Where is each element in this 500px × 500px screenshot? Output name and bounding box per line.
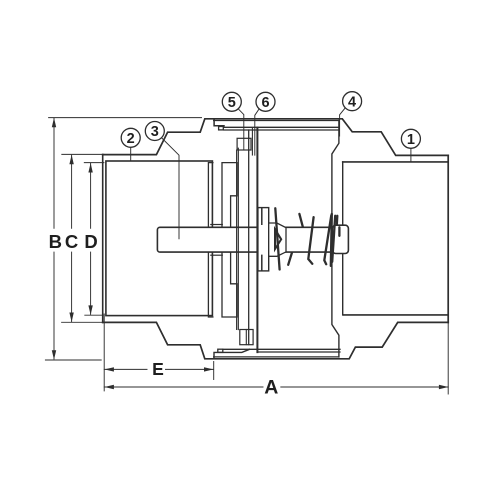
arrow A left <box>104 385 114 389</box>
leader 2 <box>130 147 132 160</box>
arrow C top <box>69 155 73 165</box>
leader 3 <box>162 138 180 239</box>
arrow B top <box>52 118 56 128</box>
callout circle 1 <box>401 129 420 148</box>
body top profile <box>103 119 449 156</box>
arrow D bottom <box>88 305 92 315</box>
cap thread notch top <box>219 127 224 130</box>
right tailpiece pipe (item 1) top edge <box>343 161 449 163</box>
arrow D top <box>88 163 92 173</box>
seat land bottom <box>211 254 223 256</box>
seat rib B top <box>222 163 237 228</box>
stem bar (poppet shaft), white filled <box>157 227 345 252</box>
dimension A/E extension left <box>103 314 105 391</box>
dimension D line <box>90 163 92 314</box>
callout circle 4 <box>343 92 362 111</box>
dimension C line <box>71 155 73 322</box>
svg-text:C: C <box>65 231 78 252</box>
svg-text:E: E <box>152 359 164 379</box>
poppet neck <box>269 223 286 256</box>
svg-text:3: 3 <box>151 124 159 140</box>
callout circle 2 <box>121 128 140 147</box>
cap thread step bottom <box>214 349 250 359</box>
dimension B extension bottom <box>45 359 101 361</box>
spring coils <box>275 208 339 269</box>
svg-text:6: 6 <box>261 95 269 111</box>
body inner wall right bottom <box>332 254 339 357</box>
arrow C bottom <box>69 313 73 323</box>
leader 5 <box>238 109 244 150</box>
dimension arrowheads <box>52 118 449 389</box>
body right edge <box>447 155 449 322</box>
dimension A extension right <box>447 322 449 394</box>
arrow B bottom <box>52 350 56 360</box>
spring coil 6 <box>332 216 335 262</box>
spring coil 2 bottom stub <box>288 253 292 265</box>
leader 4 <box>340 108 346 136</box>
right tailpiece pipe bottom edge <box>344 314 449 316</box>
spring coil 3 <box>308 217 313 264</box>
dimension C extension bottom <box>62 321 104 323</box>
cap thread notch bottom <box>218 349 223 352</box>
right pipe end face <box>342 162 344 315</box>
dimension E extension right <box>213 362 215 380</box>
svg-text:B: B <box>49 231 62 252</box>
spring coil 6b top tick <box>336 216 339 225</box>
callout circle 6 <box>256 92 275 111</box>
arrow E right <box>204 367 214 371</box>
spring coil 1 <box>275 208 279 269</box>
cap thread step top <box>214 119 224 126</box>
svg-text:1: 1 <box>407 132 415 148</box>
body inner wall right top <box>332 121 339 225</box>
callout numbers <box>127 94 415 148</box>
seat rib B bottom <box>222 252 237 317</box>
spring coil 5 <box>331 214 332 266</box>
dimension B extension top <box>49 117 202 119</box>
spring coil 2 top stub <box>299 214 302 227</box>
poppet nose chevron <box>275 229 281 249</box>
dimension D extension bottom <box>85 314 103 316</box>
callout leaders <box>131 108 411 239</box>
body inner ceiling line <box>214 120 339 122</box>
disc hub bottom <box>240 330 253 345</box>
dimension D extension top <box>84 162 104 164</box>
svg-text:A: A <box>264 377 278 399</box>
dimension C extension top <box>62 153 104 155</box>
arrow A right <box>439 385 449 389</box>
body inner floor line <box>214 356 339 358</box>
seat rib A bottom <box>208 252 213 317</box>
spring end hooks on washer <box>261 209 263 270</box>
dimension lines <box>45 118 448 394</box>
seat rib A top <box>208 163 213 228</box>
dimension B line <box>53 118 55 359</box>
arrow E left <box>104 367 114 371</box>
dimension E line <box>104 368 213 370</box>
callout circle 5 <box>222 92 241 111</box>
cap thread lines top <box>224 126 339 128</box>
leader 6 <box>255 109 259 156</box>
spring tail in retainer <box>338 227 340 236</box>
cap thread lines bottom <box>223 348 340 350</box>
left tailpiece pipe (item 2) <box>106 161 212 316</box>
dimension A line <box>104 386 448 388</box>
body bottom profile <box>103 322 449 358</box>
svg-text:5: 5 <box>228 95 236 111</box>
disc hub top <box>237 138 251 150</box>
svg-text:2: 2 <box>127 131 135 147</box>
svg-text:4: 4 <box>348 94 356 110</box>
seat land top <box>211 224 223 226</box>
leader 1 <box>410 148 412 161</box>
spring coil 4 <box>324 215 331 264</box>
dimension labels <box>49 231 279 399</box>
callout circle 3 <box>145 122 164 141</box>
union nut left face <box>102 155 104 323</box>
spring retainer (right end), white filled <box>332 225 348 253</box>
spring guide washer on poppet <box>258 208 269 271</box>
callout circles <box>121 92 420 149</box>
svg-text:D: D <box>84 231 97 252</box>
disc / seat plate verticals <box>236 150 238 330</box>
